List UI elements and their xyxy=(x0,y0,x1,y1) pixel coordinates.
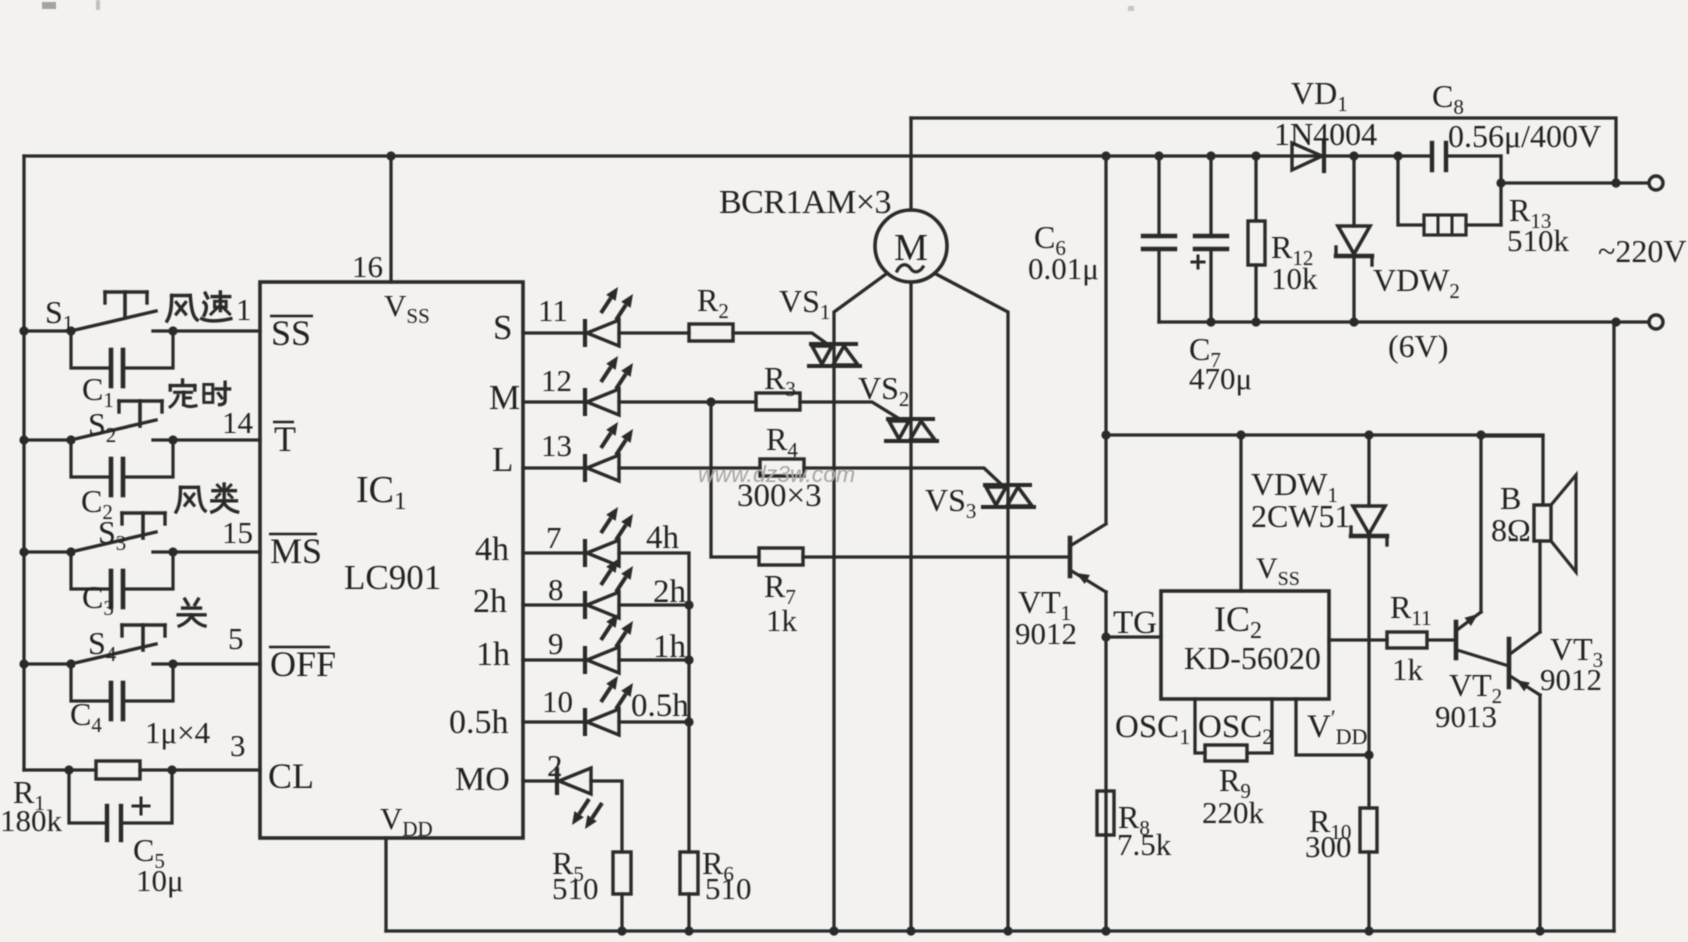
svg-text:220k: 220k xyxy=(1202,795,1265,830)
ic IC2 KD-56020 box xyxy=(1161,591,1329,699)
speaker B xyxy=(1534,505,1551,541)
transistor VT1 xyxy=(1068,538,1073,576)
svg-text:8: 8 xyxy=(548,572,564,607)
wire C8/R13 left bracket xyxy=(1393,151,1402,160)
LED xyxy=(585,356,633,416)
svg-text:0.01μ: 0.01μ xyxy=(1028,251,1099,286)
switch S4 pushbutton xyxy=(66,659,75,668)
triac VS3 xyxy=(985,483,1030,487)
svg-text:0.5h: 0.5h xyxy=(449,704,509,741)
svg-text:TG: TG xyxy=(1113,605,1157,641)
svg-text:(6V): (6V) xyxy=(1388,328,1448,364)
svg-text:2CW51: 2CW51 xyxy=(1251,498,1351,534)
wire mid supply bus xyxy=(1106,433,1543,436)
svg-text:LC901: LC901 xyxy=(344,558,441,597)
svg-text:10μ: 10μ xyxy=(136,863,184,898)
wire row to switch S4 xyxy=(19,659,28,668)
wire motor left leg to VS1 xyxy=(834,274,886,931)
svg-text:14: 14 xyxy=(222,405,254,440)
svg-text:T: T xyxy=(274,419,296,459)
svg-text:0.56μ/400V: 0.56μ/400V xyxy=(1448,118,1601,154)
wire IC1 pin stub xyxy=(523,603,585,606)
svg-text:470μ: 470μ xyxy=(1189,361,1252,396)
svg-text:300: 300 xyxy=(1305,829,1352,864)
wire M row to R3 xyxy=(619,400,756,403)
wire VDW2 branch xyxy=(1349,151,1358,160)
scan specks xyxy=(42,2,56,9)
switch S1 pushbutton xyxy=(66,326,75,335)
wire row to switch S1 xyxy=(19,326,28,335)
svg-text:12: 12 xyxy=(541,363,572,398)
wire right rail down xyxy=(1612,322,1615,931)
wire C7 branch xyxy=(1206,151,1215,160)
wire speaker feed xyxy=(1481,436,1543,505)
wire MO LED to R5 xyxy=(591,781,622,852)
wire AC neutral (6V) line xyxy=(1159,320,1648,323)
capacitor C4 xyxy=(71,664,111,701)
triac VS1 xyxy=(811,342,856,346)
wire C8/R13 right bracket xyxy=(1499,156,1502,225)
svg-text:2h: 2h xyxy=(473,583,507,620)
svg-text:9013: 9013 xyxy=(1435,699,1497,734)
capacitor C3 xyxy=(71,552,111,589)
wire IC2 OSC pins and R9 xyxy=(1195,699,1205,753)
svg-text:10: 10 xyxy=(542,684,573,719)
resistor R2 xyxy=(689,324,733,341)
wire IC2 VDD' pin xyxy=(1296,699,1369,755)
resistor R5 xyxy=(613,852,631,894)
svg-text:5: 5 xyxy=(228,621,244,656)
label wind-type (Chinese) xyxy=(176,484,238,512)
wire motor right leg to VS3 xyxy=(936,274,1008,931)
wire VDD lead xyxy=(384,838,387,931)
svg-text:~220V: ~220V xyxy=(1598,233,1686,269)
svg-text:7.5k: 7.5k xyxy=(1117,827,1172,862)
wire top supply bus xyxy=(24,154,1432,157)
wire timer LED chain rail xyxy=(619,553,689,852)
label off (Chinese) xyxy=(178,599,205,626)
wire left key-common rail xyxy=(22,156,25,770)
svg-text:4h: 4h xyxy=(475,531,509,568)
diode VD1 xyxy=(1292,143,1322,170)
svg-text:B: B xyxy=(1500,480,1521,516)
switch S2 pushbutton xyxy=(66,435,75,444)
wire IC1 pin stub xyxy=(523,551,585,554)
transistor VT3 xyxy=(1507,639,1512,687)
terminal lower AC xyxy=(1611,317,1620,326)
svg-text:1h: 1h xyxy=(476,636,510,673)
svg-text:8Ω: 8Ω xyxy=(1491,512,1531,548)
LED xyxy=(585,422,633,482)
switch S3 pushbutton xyxy=(66,547,75,556)
svg-text:OSC2: OSC2 xyxy=(1198,709,1273,749)
capacitor C7 electrolytic xyxy=(1195,234,1227,238)
wire row to switch S2 xyxy=(19,435,28,444)
capacitor C6 xyxy=(1143,234,1175,238)
wire supply drop to mid bus xyxy=(1104,156,1107,523)
wire motor mid leg to VS2 xyxy=(909,282,912,931)
svg-text:MO: MO xyxy=(455,761,510,798)
zener VDW2 xyxy=(1338,226,1370,254)
svg-text:1k: 1k xyxy=(1392,652,1424,687)
wire R7 to VT1 base xyxy=(803,555,1070,558)
wire bottom common bus xyxy=(386,929,1614,932)
svg-text:1μ×4: 1μ×4 xyxy=(145,715,211,750)
wire R3 to VS2 gate xyxy=(800,402,898,418)
wire CL row xyxy=(24,768,96,771)
wire R4 to VS3 gate xyxy=(804,468,1002,485)
svg-text:CL: CL xyxy=(268,756,314,796)
svg-text:13: 13 xyxy=(541,428,572,463)
wire motor to AC line xyxy=(909,118,912,210)
wire row to switch S3 xyxy=(19,547,28,556)
wire C6 branch xyxy=(1154,151,1163,160)
wire L row to R4 xyxy=(619,466,760,469)
resistor R12 xyxy=(1248,221,1265,265)
LED xyxy=(585,507,633,567)
svg-text:SS: SS xyxy=(271,313,311,353)
svg-text:0.5h: 0.5h xyxy=(631,688,689,724)
motor M circle xyxy=(875,210,947,282)
svg-text:11: 11 xyxy=(538,293,568,328)
wire pin16 VSS lead xyxy=(389,156,392,282)
LED xyxy=(585,287,633,347)
svg-text:1k: 1k xyxy=(766,603,798,638)
label wind-speed 1 (Chinese) xyxy=(167,292,231,321)
svg-text:15: 15 xyxy=(222,515,253,550)
terminal upper AC xyxy=(1611,178,1620,187)
svg-text:OFF: OFF xyxy=(270,644,336,684)
resistor R6 xyxy=(680,852,698,894)
wire MO pin stub xyxy=(523,779,557,782)
svg-text:L: L xyxy=(492,440,513,479)
svg-text:BCR1AM×3: BCR1AM×3 xyxy=(719,184,891,221)
wire IC1 pin stub xyxy=(523,720,585,723)
wire S row to R2 xyxy=(619,331,689,334)
svg-text:510: 510 xyxy=(552,871,599,906)
svg-text:180k: 180k xyxy=(0,803,63,838)
svg-text:1h: 1h xyxy=(653,629,687,665)
svg-text:OSC1: OSC1 xyxy=(1115,709,1190,749)
wire R12 branch xyxy=(1251,151,1260,160)
resistor R7 xyxy=(759,548,803,565)
ic IC1 LC901 box xyxy=(260,282,523,838)
svg-text:510: 510 xyxy=(705,871,752,906)
wire M-row branch down to R7 xyxy=(711,402,759,557)
svg-text:1: 1 xyxy=(236,292,252,327)
svg-text:1N4004: 1N4004 xyxy=(1274,116,1377,152)
svg-text:10k: 10k xyxy=(1271,261,1318,296)
svg-text:3: 3 xyxy=(230,728,246,763)
LED xyxy=(585,559,633,619)
wire IC1 pin stub xyxy=(523,466,585,469)
zener VDW1 xyxy=(1367,435,1370,506)
svg-text:510k: 510k xyxy=(1507,223,1570,258)
wire IC2 VSS pin xyxy=(1239,435,1242,591)
svg-text:www.dz3w.com: www.dz3w.com xyxy=(698,461,855,487)
svg-text:16: 16 xyxy=(352,249,383,284)
resistor R11 xyxy=(1387,632,1427,648)
wire TG line xyxy=(1106,635,1161,638)
svg-text:S: S xyxy=(493,308,512,347)
LED MO xyxy=(557,767,602,829)
svg-text:7: 7 xyxy=(546,520,562,555)
capacitor C2 xyxy=(71,440,111,477)
resistor R1 xyxy=(96,761,140,779)
svg-text:4h: 4h xyxy=(646,520,680,556)
svg-text:2: 2 xyxy=(547,748,563,783)
svg-text:9012: 9012 xyxy=(1015,616,1077,651)
svg-text:KD-56020: KD-56020 xyxy=(1184,640,1321,676)
label timer (Chinese) xyxy=(170,380,229,407)
svg-text:MS: MS xyxy=(270,531,322,571)
transistor VT2 xyxy=(1454,622,1459,658)
resistor R9 xyxy=(1205,745,1247,761)
LED xyxy=(585,614,633,674)
resistor R13 segmented xyxy=(1424,215,1466,235)
wire IC1 pin stub xyxy=(523,400,585,403)
resistor R10 xyxy=(1367,755,1370,808)
wire AC line from motor top xyxy=(911,118,1648,183)
triac VS2 xyxy=(888,417,933,421)
wire IC2 output to R11 xyxy=(1329,638,1387,641)
resistor R4 xyxy=(760,459,804,476)
wire IC1 pin stub xyxy=(523,331,585,334)
svg-text:M: M xyxy=(894,227,928,269)
svg-text:9: 9 xyxy=(548,626,564,661)
resistor R3 xyxy=(756,393,800,410)
svg-text:2h: 2h xyxy=(653,574,687,610)
svg-text:M: M xyxy=(489,378,520,417)
capacitor C5 electrolytic xyxy=(64,765,73,774)
svg-text:9012: 9012 xyxy=(1540,662,1602,697)
wire R2 to VS1 gate xyxy=(733,333,830,346)
capacitor C1 xyxy=(71,331,111,368)
LED xyxy=(585,676,633,736)
svg-text:VDW2: VDW2 xyxy=(1373,262,1460,303)
capacitor C8 xyxy=(1430,143,1434,170)
wire IC1 pin stub xyxy=(523,658,585,661)
resistor R8 xyxy=(1097,791,1114,835)
